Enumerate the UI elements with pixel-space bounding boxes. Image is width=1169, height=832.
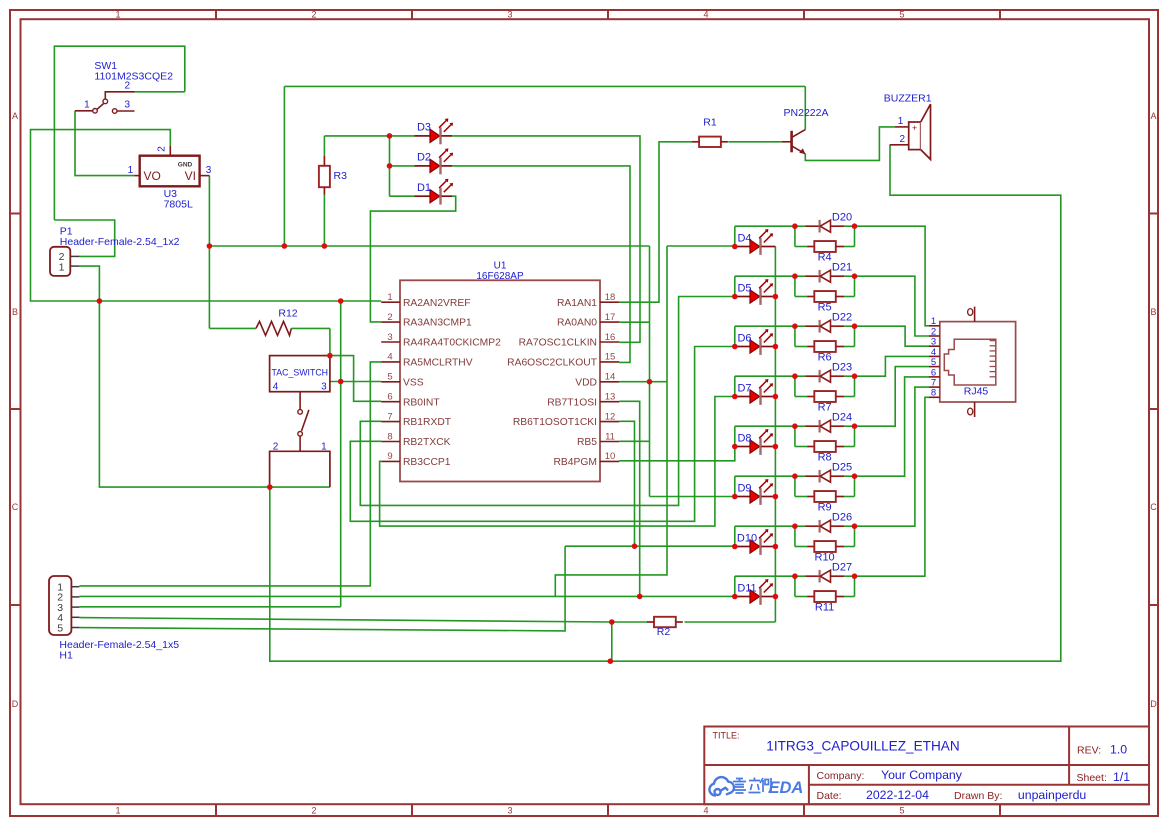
svg-text:TITLE:: TITLE: (713, 731, 740, 741)
svg-text:D1: D1 (417, 182, 431, 194)
svg-text:B: B (12, 307, 18, 317)
svg-text:D5: D5 (737, 282, 751, 294)
svg-text:H1: H1 (59, 650, 73, 662)
svg-text:RB6T1OSOT1CKI: RB6T1OSOT1CKI (513, 417, 597, 428)
svg-text:1: 1 (115, 9, 120, 19)
svg-text:D7: D7 (737, 382, 751, 394)
svg-text:4: 4 (703, 9, 708, 19)
svg-text:6: 6 (387, 392, 392, 403)
svg-text:10: 10 (605, 451, 616, 462)
svg-text:D6: D6 (737, 332, 751, 344)
svg-text:D: D (12, 699, 19, 709)
svg-text:EDA: EDA (769, 779, 804, 797)
svg-text:4: 4 (273, 382, 279, 393)
svg-text:3: 3 (206, 165, 212, 176)
svg-text:4: 4 (703, 805, 708, 815)
svg-text:3: 3 (507, 9, 512, 19)
svg-text:16: 16 (605, 332, 616, 343)
svg-text:2: 2 (157, 146, 168, 152)
svg-text:C: C (12, 502, 19, 512)
svg-text:RB0INT: RB0INT (403, 397, 440, 408)
svg-text:D23: D23 (832, 361, 852, 373)
svg-text:4: 4 (387, 352, 392, 363)
svg-text:TAC_SWITCH: TAC_SWITCH (272, 368, 329, 378)
svg-text:B: B (1150, 307, 1156, 317)
svg-text:R8: R8 (818, 451, 832, 463)
svg-text:RJ45: RJ45 (964, 386, 989, 398)
svg-text:1ITRG3_CAPOUILLEZ_ETHAN: 1ITRG3_CAPOUILLEZ_ETHAN (766, 739, 959, 754)
svg-text:R6: R6 (818, 351, 832, 363)
svg-text:R9: R9 (818, 501, 832, 513)
svg-text:14: 14 (605, 372, 616, 383)
svg-text:7: 7 (387, 411, 392, 422)
svg-text:R5: R5 (818, 301, 832, 313)
svg-text:C: C (1150, 502, 1157, 512)
svg-text:Header-Female-2.54_1x2: Header-Female-2.54_1x2 (60, 236, 180, 248)
svg-text:U1: U1 (494, 261, 507, 272)
svg-text:D10: D10 (737, 532, 757, 544)
svg-text:5: 5 (899, 9, 904, 19)
svg-text:8: 8 (387, 431, 392, 442)
svg-text:D4: D4 (737, 232, 751, 244)
svg-text:18: 18 (605, 292, 616, 303)
svg-text:Date:: Date: (817, 790, 842, 802)
svg-text:D22: D22 (832, 311, 852, 323)
svg-text:D25: D25 (832, 461, 852, 473)
svg-text:17: 17 (605, 312, 616, 323)
svg-text:9: 9 (387, 451, 392, 462)
svg-text:13: 13 (605, 392, 616, 403)
svg-text:Drawn By:: Drawn By: (954, 790, 1002, 802)
svg-text:2: 2 (311, 9, 316, 19)
svg-text:11: 11 (605, 431, 615, 442)
svg-text:2022-12-04: 2022-12-04 (866, 788, 929, 802)
svg-text:VO: VO (144, 169, 161, 183)
svg-text:D8: D8 (737, 432, 751, 444)
svg-text:5: 5 (899, 805, 904, 815)
svg-text:RA4RA4T0CKICMP2: RA4RA4T0CKICMP2 (403, 338, 501, 349)
svg-text:3: 3 (321, 382, 327, 393)
svg-text:3: 3 (507, 805, 512, 815)
svg-text:5: 5 (57, 622, 63, 634)
svg-text:VI: VI (185, 169, 196, 183)
svg-text:Sheet:: Sheet: (1077, 772, 1107, 784)
svg-text:1: 1 (128, 165, 134, 176)
svg-text:VSS: VSS (403, 377, 424, 388)
svg-text:R3: R3 (334, 170, 348, 182)
svg-text:RA0AN0: RA0AN0 (557, 318, 597, 329)
svg-text:RB2TXCK: RB2TXCK (403, 437, 451, 448)
svg-text:RA6OSC2CLKOUT: RA6OSC2CLKOUT (507, 358, 598, 369)
svg-text:3: 3 (387, 332, 392, 343)
svg-text:D3: D3 (417, 122, 431, 134)
svg-text:D11: D11 (737, 582, 756, 594)
svg-text:D26: D26 (832, 511, 852, 523)
svg-text:VDD: VDD (575, 377, 597, 388)
svg-text:Your Company: Your Company (881, 768, 963, 782)
svg-text:+: + (912, 123, 917, 133)
svg-text:1.0: 1.0 (1110, 743, 1127, 757)
svg-text:1: 1 (387, 292, 392, 303)
svg-text:2: 2 (311, 805, 316, 815)
svg-text:R7: R7 (818, 401, 832, 413)
svg-text:PN2222A: PN2222A (784, 107, 829, 119)
svg-text:RA1AN1: RA1AN1 (557, 298, 597, 309)
svg-text:A: A (1150, 111, 1156, 121)
svg-text:1/1: 1/1 (1113, 770, 1130, 784)
svg-text:5: 5 (387, 372, 392, 383)
svg-text:R12: R12 (278, 308, 297, 320)
svg-text:12: 12 (605, 411, 616, 422)
svg-text:GND: GND (178, 162, 193, 169)
svg-text:D20: D20 (832, 211, 852, 223)
svg-text:D27: D27 (832, 561, 852, 573)
svg-text:Company:: Company: (817, 770, 865, 782)
svg-text:A: A (12, 111, 18, 121)
svg-text:1: 1 (321, 442, 327, 453)
svg-text:2: 2 (900, 134, 906, 145)
svg-text:16F628AP: 16F628AP (476, 271, 524, 282)
svg-text:D24: D24 (832, 411, 852, 423)
svg-text:RA5MCLRTHV: RA5MCLRTHV (403, 358, 473, 369)
svg-text:R2: R2 (657, 626, 671, 638)
svg-text:RB1RXDT: RB1RXDT (403, 417, 452, 428)
svg-text:1: 1 (115, 805, 120, 815)
svg-text:15: 15 (605, 352, 616, 363)
svg-text:D9: D9 (737, 482, 751, 494)
svg-text:RA2AN2VREF: RA2AN2VREF (403, 298, 471, 309)
svg-text:1101M2S3CQE2: 1101M2S3CQE2 (94, 71, 173, 83)
svg-text:8: 8 (931, 388, 936, 399)
svg-text:R4: R4 (818, 251, 832, 263)
svg-text:2: 2 (387, 312, 392, 323)
svg-text:Header-Female-2.54_1x5: Header-Female-2.54_1x5 (59, 639, 179, 651)
svg-text:unpainperdu: unpainperdu (1018, 788, 1087, 802)
svg-text:D21: D21 (832, 261, 852, 273)
svg-text:RA7OSC1CLKIN: RA7OSC1CLKIN (519, 338, 597, 349)
svg-text:7805L: 7805L (164, 199, 193, 211)
svg-text:2: 2 (273, 442, 279, 453)
svg-text:R1: R1 (703, 117, 717, 129)
svg-text:BUZZER1: BUZZER1 (884, 93, 932, 105)
svg-text:3: 3 (125, 100, 131, 111)
svg-text:RB5: RB5 (577, 437, 597, 448)
svg-text:D2: D2 (417, 152, 431, 164)
svg-text:RB4PGM: RB4PGM (554, 457, 598, 468)
svg-text:D: D (1150, 699, 1157, 709)
svg-text:RA3AN3CMP1: RA3AN3CMP1 (403, 318, 472, 329)
svg-text:REV:: REV: (1077, 745, 1101, 757)
svg-text:1: 1 (898, 116, 904, 127)
svg-text:RB3CCP1: RB3CCP1 (403, 457, 451, 468)
svg-text:1: 1 (59, 261, 65, 273)
svg-text:1: 1 (84, 100, 90, 111)
svg-text:R11: R11 (815, 601, 834, 613)
svg-text:RB7T1OSI: RB7T1OSI (547, 397, 597, 408)
